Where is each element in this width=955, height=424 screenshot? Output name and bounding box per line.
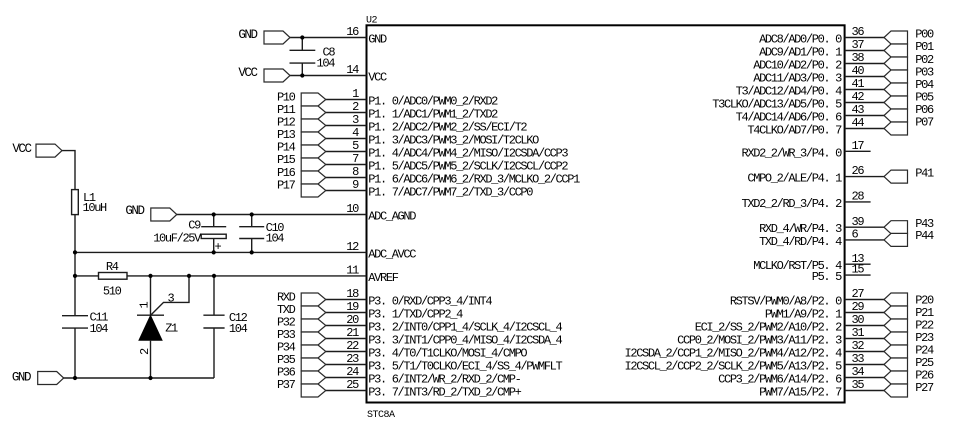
- wire pin 20: [326, 325, 367, 327]
- svg-text:P07: P07: [915, 116, 934, 130]
- svg-text:21: 21: [346, 326, 359, 340]
- svg-text:43: 43: [852, 103, 865, 117]
- wire pin 6 to port P44: [845, 239, 884, 241]
- port P36: [301, 371, 326, 384]
- svg-text:T4CLKO/AD7/P0. 7: T4CLKO/AD7/P0. 7: [747, 124, 842, 138]
- port P23: [884, 332, 908, 345]
- svg-text:44: 44: [852, 116, 865, 130]
- svg-text:16: 16: [346, 25, 359, 39]
- port P22: [884, 319, 908, 332]
- svg-text:T3CLKO/ADC13/AD5/P0. 5: T3CLKO/ADC13/AD5/P0. 5: [712, 98, 842, 112]
- svg-text:R4: R4: [106, 260, 119, 274]
- resistor R4 510: [99, 273, 128, 280]
- junction at 213.7,214.5: [212, 212, 216, 216]
- wire pin 36 to port P00: [845, 37, 884, 39]
- wire pin 24: [326, 377, 367, 379]
- capacitor C11 104: [62, 315, 88, 317]
- svg-text:104: 104: [90, 322, 109, 336]
- wire rail AVREF to C11: [74, 276, 76, 316]
- power port GND (top): [264, 31, 290, 44]
- svg-text:P3. 4/T0/T1CLKO/MOSI_4/CMPO: P3. 4/T0/T1CLKO/MOSI_4/CMPO: [368, 347, 527, 361]
- wire Z1 reference pin 3 to AVREF: [151, 276, 190, 316]
- svg-text:P1. 6/ADC6/PWM6_2/RXD_3/MCLKO_: P1. 6/ADC6/PWM6_2/RXD_3/MCLKO_2/CCP1: [368, 173, 580, 187]
- junction at 214,275.9: [212, 274, 216, 278]
- svg-text:42: 42: [852, 90, 865, 104]
- svg-text:GND: GND: [368, 33, 387, 47]
- junction at 251.7,214.5: [250, 212, 254, 216]
- svg-text:GND: GND: [12, 370, 31, 384]
- wire pin 26 to port P41: [845, 176, 884, 178]
- svg-text:RSTSV/PWM0/A8/P2. 0: RSTSV/PWM0/A8/P2. 0: [730, 295, 842, 309]
- svg-text:T3/ADC12/AD4/P0. 4: T3/ADC12/AD4/P0. 4: [736, 85, 842, 99]
- svg-text:STC8A: STC8A: [367, 410, 395, 421]
- svg-text:U2: U2: [366, 15, 378, 26]
- wire pin 21: [326, 338, 367, 340]
- svg-text:VCC: VCC: [12, 142, 31, 156]
- port P26: [884, 371, 908, 384]
- svg-text:P37: P37: [277, 378, 296, 392]
- svg-text:ADC_AGND: ADC_AGND: [368, 210, 416, 224]
- svg-text:P1. 4/ADC4/PWM4_2/MISO/I2CSDA/: P1. 4/ADC4/PWM4_2/MISO/I2CSDA/CCP3: [368, 147, 568, 161]
- svg-text:Z1: Z1: [165, 322, 178, 336]
- wire pin 30 to port P22: [845, 325, 884, 327]
- power port GND (bottom): [38, 372, 64, 385]
- svg-text:31: 31: [852, 326, 865, 340]
- wire pin 44 to port P07: [845, 128, 884, 130]
- wire ground rail: [63, 377, 214, 379]
- svg-text:VCC: VCC: [368, 71, 387, 85]
- port P03: [884, 70, 908, 83]
- svg-text:18: 18: [346, 287, 359, 301]
- svg-text:19: 19: [346, 300, 359, 314]
- capacitor C10 104: [251, 215, 253, 227]
- svg-text:17: 17: [852, 139, 865, 153]
- svg-text:26: 26: [852, 164, 865, 178]
- port P04: [884, 83, 908, 96]
- svg-text:CCP3_2/PWM6/A14/P2. 6: CCP3_2/PWM6/A14/P2. 6: [718, 373, 842, 387]
- port P25: [884, 358, 908, 371]
- wire pin 16 GND: [290, 37, 367, 39]
- wire pin 2: [326, 112, 367, 114]
- svg-text:TXD_4/RD/P4. 4: TXD_4/RD/P4. 4: [759, 235, 842, 249]
- port RXD: [301, 293, 326, 306]
- port P11: [301, 106, 326, 119]
- svg-text:ADC10/AD2/P0. 2: ADC10/AD2/P0. 2: [753, 59, 842, 73]
- svg-text:P27: P27: [915, 381, 934, 395]
- svg-text:RXD2_2/WR_3/P4. 0: RXD2_2/WR_3/P4. 0: [742, 146, 843, 160]
- wire pin 33 to port P25: [845, 364, 884, 366]
- wire stub pin 28: [845, 201, 871, 203]
- svg-text:25: 25: [346, 378, 359, 392]
- svg-text:ADC11/AD3/P0. 3: ADC11/AD3/P0. 3: [753, 72, 842, 86]
- wire pin 8: [326, 177, 367, 179]
- svg-text:CCP0_2/MOSI_2/PWM3/A11/P2. 3: CCP0_2/MOSI_2/PWM3/A11/P2. 3: [677, 334, 842, 348]
- svg-text:38: 38: [852, 51, 865, 65]
- wire stub pin 13: [845, 263, 871, 265]
- junction at 302.3,37.5: [300, 35, 304, 39]
- svg-text:30: 30: [852, 313, 865, 327]
- wire pin 40 to port P03: [845, 76, 884, 78]
- svg-text:P1. 0/ADC0/PWM0_2/RXD2: P1. 0/ADC0/PWM0_2/RXD2: [368, 95, 498, 109]
- svg-text:34: 34: [852, 365, 865, 379]
- svg-text:10uF/25V: 10uF/25V: [153, 232, 202, 246]
- svg-text:27: 27: [852, 287, 865, 301]
- shunt reference Z1 cathode bar: [137, 314, 164, 316]
- port P21: [884, 306, 908, 319]
- svg-text:VCC: VCC: [238, 66, 257, 80]
- power port VCC (left): [36, 144, 62, 157]
- svg-text:40: 40: [852, 64, 865, 78]
- junction at 75,378: [73, 376, 77, 380]
- svg-text:10: 10: [346, 202, 359, 216]
- svg-text:AVREF: AVREF: [368, 271, 398, 285]
- svg-text:P3. 1/TXD/CPP2_4: P3. 1/TXD/CPP2_4: [368, 308, 463, 322]
- wire pin 1: [326, 99, 367, 101]
- capacitor C9 10uF/25V (polarized): [213, 215, 215, 227]
- power port GND (middle, ADC_AGND): [151, 208, 177, 221]
- wire pin 3: [326, 125, 367, 127]
- svg-text:36: 36: [852, 25, 865, 39]
- svg-text:T4/ADC14/AD6/P0. 6: T4/ADC14/AD6/P0. 6: [736, 111, 842, 125]
- junction at 251.7,252.4: [250, 250, 254, 254]
- svg-text:PWM1/A9/P2. 1: PWM1/A9/P2. 1: [765, 308, 842, 322]
- port P17: [301, 184, 326, 197]
- svg-text:CMPO_2/ALE/P4. 1: CMPO_2/ALE/P4. 1: [747, 172, 842, 186]
- svg-text:GND: GND: [238, 28, 257, 42]
- port P41: [884, 170, 908, 183]
- wire AVREF to C12: [213, 276, 215, 315]
- port P27: [884, 384, 908, 397]
- wire pin 18: [326, 299, 367, 301]
- svg-text:ADC_AVCC: ADC_AVCC: [368, 247, 416, 261]
- svg-text:P3. 5/T1/T0CLKO/ECI_4/SS_4/PWM: P3. 5/T1/T0CLKO/ECI_4/SS_4/PWMFLT: [368, 360, 562, 374]
- port P16: [301, 171, 326, 184]
- svg-text:I2CSDA_2/CCP1_2/MISO_2/PWM4/A1: I2CSDA_2/CCP1_2/MISO_2/PWM4/A12/P2. 4: [625, 347, 843, 361]
- port P14: [301, 145, 326, 158]
- port P33: [301, 332, 326, 345]
- svg-text:P3. 0/RXD/CPP3_4/INT4: P3. 0/RXD/CPP3_4/INT4: [368, 295, 492, 309]
- svg-text:P17: P17: [277, 178, 296, 192]
- wire pin 41 to port P04: [845, 89, 884, 91]
- svg-text:33: 33: [852, 352, 865, 366]
- wire pin 38 to port P02: [845, 63, 884, 65]
- port P07: [884, 122, 908, 135]
- wire Z1 anode to ground rail: [150, 341, 152, 378]
- wire pin 14 VCC: [290, 75, 367, 77]
- wire pin 39 to port P43: [845, 226, 884, 228]
- port P32: [301, 319, 326, 332]
- svg-text:37: 37: [852, 38, 865, 52]
- svg-text:15: 15: [852, 263, 865, 277]
- port P20: [884, 293, 908, 306]
- wire pin 42 to port P05: [845, 102, 884, 104]
- port P00: [884, 31, 908, 44]
- svg-text:104: 104: [229, 322, 248, 336]
- wire pin 37 to port P01: [845, 50, 884, 52]
- port P01: [884, 44, 908, 57]
- junction at 213.7,252.4: [212, 250, 216, 254]
- svg-text:29: 29: [852, 300, 865, 314]
- wire pin 31 to port P23: [845, 338, 884, 340]
- capacitor C8 104: [301, 38, 303, 51]
- svg-text:P3. 6/INT2/WR_2/RXD_2/CMP-: P3. 6/INT2/WR_2/RXD_2/CMP-: [368, 373, 520, 387]
- wire stub pin 15: [845, 274, 871, 276]
- wire pin 35 to port P27: [845, 390, 884, 392]
- port P35: [301, 358, 326, 371]
- svg-text:P1. 5/ADC5/PWM5_2/SCLK/I2CSCL/: P1. 5/ADC5/PWM5_2/SCLK/I2CSCL/CCP2: [368, 160, 568, 174]
- junction at 75,252.4: [73, 250, 77, 254]
- svg-text:10uH: 10uH: [83, 201, 108, 215]
- svg-text:ADC9/AD1/P0. 1: ADC9/AD1/P0. 1: [759, 46, 842, 60]
- wire pin 12 ADC_AVCC net: [75, 251, 367, 253]
- wire pin 25: [326, 390, 367, 392]
- wire pin 19: [326, 312, 367, 314]
- wire pin 27 to port P20: [845, 299, 884, 301]
- wire pin 4: [326, 138, 367, 140]
- svg-text:P1. 1/ADC1/PWM1_2/TXD2: P1. 1/ADC1/PWM1_2/TXD2: [368, 108, 498, 122]
- svg-text:510: 510: [103, 285, 122, 299]
- wire pin 9: [326, 190, 367, 192]
- junction at 302.3,75.5: [300, 73, 304, 77]
- wire pin 34 to port P26: [845, 377, 884, 379]
- wire pin 5: [326, 151, 367, 153]
- wire pin 22: [326, 351, 367, 353]
- wire C11 to ground rail: [74, 328, 76, 378]
- svg-text:22: 22: [346, 339, 359, 353]
- port P34: [301, 345, 326, 358]
- svg-text:20: 20: [346, 313, 359, 327]
- port P43: [884, 221, 908, 234]
- wire pin 23: [326, 364, 367, 366]
- wire VCC to L1: [62, 151, 75, 190]
- port P02: [884, 57, 908, 70]
- svg-text:P44: P44: [915, 229, 934, 243]
- port P10: [301, 93, 326, 106]
- capacitor C12 104: [203, 314, 224, 316]
- port P24: [884, 345, 908, 358]
- port P37: [301, 384, 326, 397]
- port P12: [301, 119, 326, 132]
- junction at 75,275.9: [73, 274, 77, 278]
- wire C12 to ground rail: [213, 328, 215, 378]
- wire pin 43 to port P06: [845, 115, 884, 117]
- svg-text:P3. 2/INT0/CPP1_4/SCLK_4/I2CSC: P3. 2/INT0/CPP1_4/SCLK_4/I2CSCL_4: [368, 321, 562, 335]
- port P13: [301, 132, 326, 145]
- svg-text:P3. 7/INT3/RD_2/TXD_2/CMP+: P3. 7/INT3/RD_2/TXD_2/CMP+: [368, 386, 521, 400]
- svg-text:104: 104: [317, 57, 336, 71]
- svg-text:11: 11: [346, 264, 359, 278]
- wire stub pin 17: [845, 150, 871, 152]
- wire rail AVCC to AVREF: [74, 252, 76, 276]
- svg-text:C9: C9: [188, 218, 201, 232]
- power port VCC (top): [264, 69, 290, 82]
- svg-text:35: 35: [852, 378, 865, 392]
- svg-text:104: 104: [266, 231, 285, 245]
- svg-text:ECI_2/SS_2/PWM2/A10/P2. 2: ECI_2/SS_2/PWM2/A10/P2. 2: [695, 321, 842, 335]
- svg-text:32: 32: [852, 339, 865, 353]
- wire pin 32 to port P24: [845, 351, 884, 353]
- junction at 150.5,378: [148, 376, 152, 380]
- junction at 189,275.9: [187, 274, 191, 278]
- junction at 150.5,275.9: [148, 274, 152, 278]
- svg-text:28: 28: [852, 190, 865, 204]
- port P06: [884, 109, 908, 122]
- wire pin 7: [326, 164, 367, 166]
- svg-text:23: 23: [346, 352, 359, 366]
- wire pin 10 ADC_AGND: [177, 214, 367, 216]
- inductor L1 10uH: [72, 190, 79, 215]
- svg-text:I2CSCL_2/CCP2_2/SCLK_2/PWM5/A1: I2CSCL_2/CCP2_2/SCLK_2/PWM5/A13/P2. 5: [625, 360, 843, 374]
- wire AVREF to Z1 cathode: [150, 276, 152, 315]
- svg-text:P1. 7/ADC7/PWM7_2/TXD_3/CCP0: P1. 7/ADC7/PWM7_2/TXD_3/CCP0: [368, 186, 533, 200]
- port P44: [884, 233, 908, 246]
- port TXD: [301, 306, 326, 319]
- svg-text:PWM7/A15/P2. 7: PWM7/A15/P2. 7: [759, 386, 842, 400]
- wire pin 11 AVREF net (two segments around R4): [75, 275, 99, 277]
- svg-text:24: 24: [346, 365, 359, 379]
- svg-text:TXD2_2/RD_3/P4. 2: TXD2_2/RD_3/P4. 2: [742, 197, 843, 211]
- svg-text:P41: P41: [915, 167, 934, 181]
- wire L1 to AVCC rail: [74, 215, 76, 253]
- port P15: [301, 158, 326, 171]
- IC U2 STC8A body: [367, 25, 845, 402]
- svg-text:12: 12: [346, 240, 359, 254]
- svg-text:41: 41: [852, 77, 865, 91]
- svg-text:P1. 2/ADC2/PWM2_2/SS/ECI/T2: P1. 2/ADC2/PWM2_2/SS/ECI/T2: [368, 121, 527, 135]
- port P05: [884, 96, 908, 109]
- svg-text:P1. 3/ADC3/PWM3_2/MOSI/T2CLKO: P1. 3/ADC3/PWM3_2/MOSI/T2CLKO: [368, 134, 539, 148]
- svg-text:P3. 3/INT1/CPP0_4/MISO_4/I2CSD: P3. 3/INT1/CPP0_4/MISO_4/I2CSDA_4: [368, 334, 562, 348]
- shunt reference Z1 body (pin 1 cathode, pin 2 anode): [139, 316, 162, 341]
- svg-text:GND: GND: [125, 204, 144, 218]
- svg-text:P5. 5: P5. 5: [812, 270, 842, 284]
- svg-text:ADC8/AD0/P0. 0: ADC8/AD0/P0. 0: [759, 33, 842, 47]
- svg-text:14: 14: [346, 63, 359, 77]
- wire pin 29 to port P21: [845, 312, 884, 314]
